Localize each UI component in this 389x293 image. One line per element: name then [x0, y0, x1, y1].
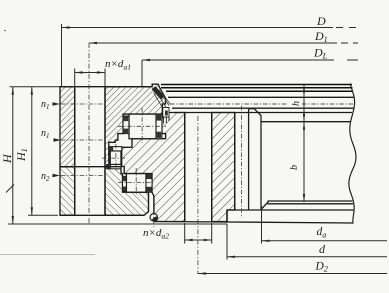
svg-text:D: D — [316, 14, 326, 28]
svg-text:n2: n2 — [41, 171, 50, 183]
dimension D — [62, 24, 357, 86]
inner ring bottom lip — [155, 210, 354, 223]
break line wavy — [349, 84, 356, 224]
svg-text:H: H — [0, 153, 14, 164]
dimension n x da1 — [75, 69, 105, 89]
outer ring top piece right part — [105, 84, 166, 167]
outer ring top piece left strip — [60, 87, 75, 167]
svg-text:n×da1: n×da1 — [105, 58, 131, 72]
middle roller cage top rail — [109, 147, 122, 151]
dimension H — [6, 87, 60, 224]
dimension H1 — [28, 87, 58, 216]
bottom roller — [126, 174, 146, 193]
svg-text:D1: D1 — [314, 29, 328, 44]
outer ring bottom piece right part — [105, 167, 149, 216]
dimension da — [262, 206, 388, 244]
dimension h — [303, 85, 305, 203]
outer ring top edge across bolt channel — [59, 86, 152, 88]
outer bolt hole centerline vertical — [88, 43, 90, 224]
middle roller centerlines — [102, 144, 126, 172]
inner ring top face lines band1 — [161, 85, 353, 92]
inner bolt hole centerline / D2 extension — [197, 116, 199, 274]
svg-text:n×da2: n×da2 — [143, 227, 169, 241]
speck top left — [4, 30, 6, 32]
inner bolt channel edges — [185, 113, 212, 222]
top roller cage right rail — [156, 114, 162, 139]
inner ring right column section — [212, 113, 235, 222]
outer ring bottom piece left strip — [60, 167, 75, 216]
svg-text:b: b — [289, 165, 300, 170]
faint artifact line bottom left — [0, 254, 95, 256]
svg-text:DL: DL — [313, 46, 328, 61]
gear tooth zone verticals — [235, 109, 353, 210]
dimension D2 — [198, 272, 387, 274]
bottom roller cage left rail — [123, 176, 127, 191]
leader arrows n1 n1 n2 — [53, 102, 62, 177]
bottom roller centerlines — [118, 168, 155, 196]
top seal lip holder — [163, 108, 169, 124]
bolt hole row centerlines n1 n1 n2 — [61, 104, 107, 176]
gear pitch vertical centerline — [241, 106, 243, 218]
svg-text:n1: n1 — [41, 99, 50, 111]
svg-text:h: h — [291, 101, 302, 106]
inner ring main section — [122, 113, 185, 222]
ground extension line H — [8, 223, 227, 225]
dimension d — [227, 224, 387, 260]
middle roller — [110, 151, 121, 165]
outer ring split line — [60, 166, 122, 168]
dimension DL — [142, 59, 358, 86]
svg-text:D2: D2 — [315, 261, 328, 274]
bottom roller cage right rail — [146, 174, 152, 193]
outer bolt channel edges — [75, 87, 105, 216]
svg-text:d: d — [319, 242, 326, 256]
top roller centerlines — [118, 108, 166, 143]
bottom seal o-ring — [150, 211, 158, 228]
dimension D1 — [89, 42, 358, 44]
outer ring bottom edge + ground line — [60, 214, 144, 216]
svg-text:da: da — [317, 226, 327, 240]
top roller — [129, 114, 156, 139]
svg-text:n1: n1 — [41, 128, 50, 140]
dimension n x da2 — [185, 223, 212, 244]
svg-text:H1: H1 — [14, 148, 29, 162]
gear rim face lines band2 — [168, 97, 354, 112]
middle roller cage bottom rail — [107, 165, 121, 169]
top seal dark wedge — [152, 86, 171, 108]
top roller cage left rail — [123, 116, 129, 134]
bottom seal gap lines — [149, 192, 154, 213]
